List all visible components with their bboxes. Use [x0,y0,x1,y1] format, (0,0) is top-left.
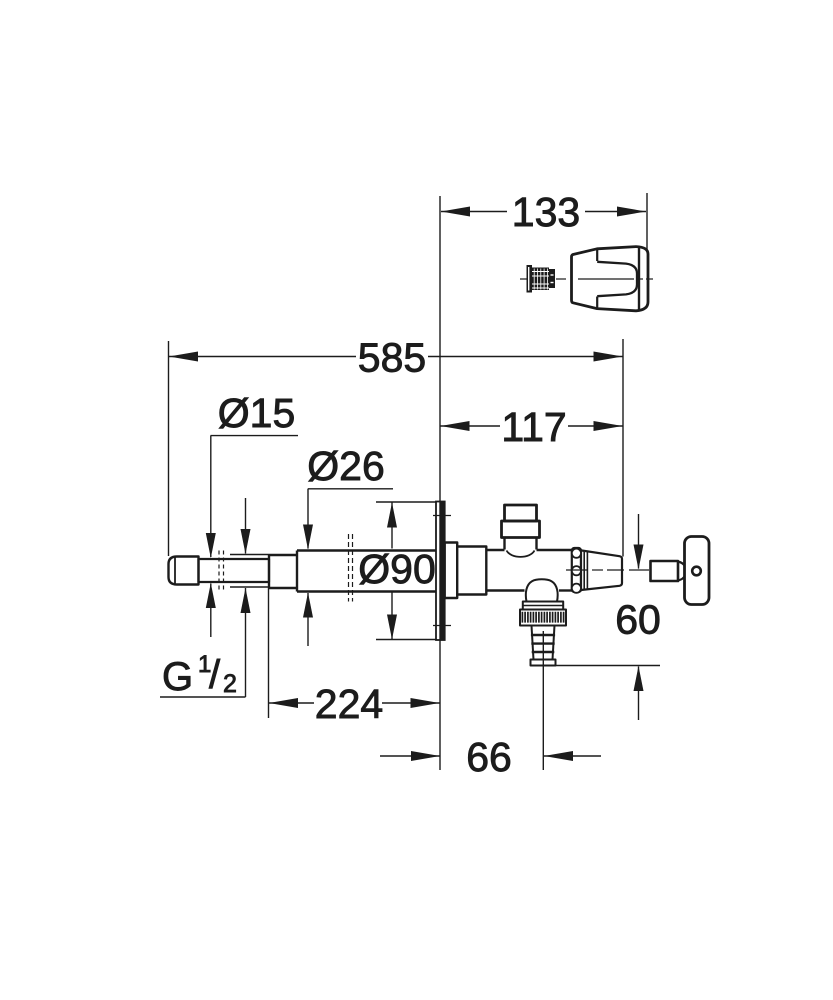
key waist [678,562,685,567]
knob handle [572,247,649,311]
svg-text:117: 117 [501,404,566,450]
pipe section O26 [297,549,436,551]
svg-text:585: 585 [358,335,426,381]
hose nipple [532,626,534,660]
pipe section B [269,554,297,556]
svg-text:224: 224 [315,681,383,727]
svg-text:133: 133 [512,189,580,235]
arrowheads [441,207,470,217]
connector B [457,547,486,595]
chain lines pipe [348,534,350,602]
dim O90 [391,503,393,549]
svg-text:/: / [209,653,221,697]
bottom outlet bell [526,579,558,601]
dim 224 [269,702,314,704]
dim 133 [441,211,507,213]
dim 117 [441,425,501,427]
svg-text:Ø15: Ø15 [218,390,296,436]
spout cone [581,550,622,590]
dim 60 [638,514,640,569]
svg-text:66: 66 [466,734,512,780]
outlet ring band [523,602,563,610]
svg-text:Ø90: Ø90 [358,546,436,592]
svg-text:G: G [162,655,193,699]
key stem [651,561,679,581]
dim O26 leader [308,488,393,490]
centerline knob [520,278,527,280]
valve body barrel [486,549,504,551]
key T-handle [685,537,710,605]
centerline spout [566,569,588,571]
dim G12 leader [245,498,247,554]
dim 66 [380,755,440,757]
thread pipe G1/2 [199,559,270,582]
knurled nut [520,610,566,626]
svg-text:60: 60 [615,597,661,643]
cartridge screw part [527,265,556,293]
collar bumps [572,549,581,558]
connector A [445,543,458,599]
svg-text:Ø26: Ø26 [307,443,385,489]
chain lines thread [218,551,220,592]
pipe tip cap [169,557,199,585]
spout collar [572,548,581,592]
svg-text:2: 2 [223,670,237,698]
knurl hatch [522,612,563,623]
top outlet pipe [505,505,537,521]
dim O15 leader [211,435,299,437]
wire [439,196,441,770]
wall flange O90 [436,502,445,641]
dim 585 [169,356,356,358]
